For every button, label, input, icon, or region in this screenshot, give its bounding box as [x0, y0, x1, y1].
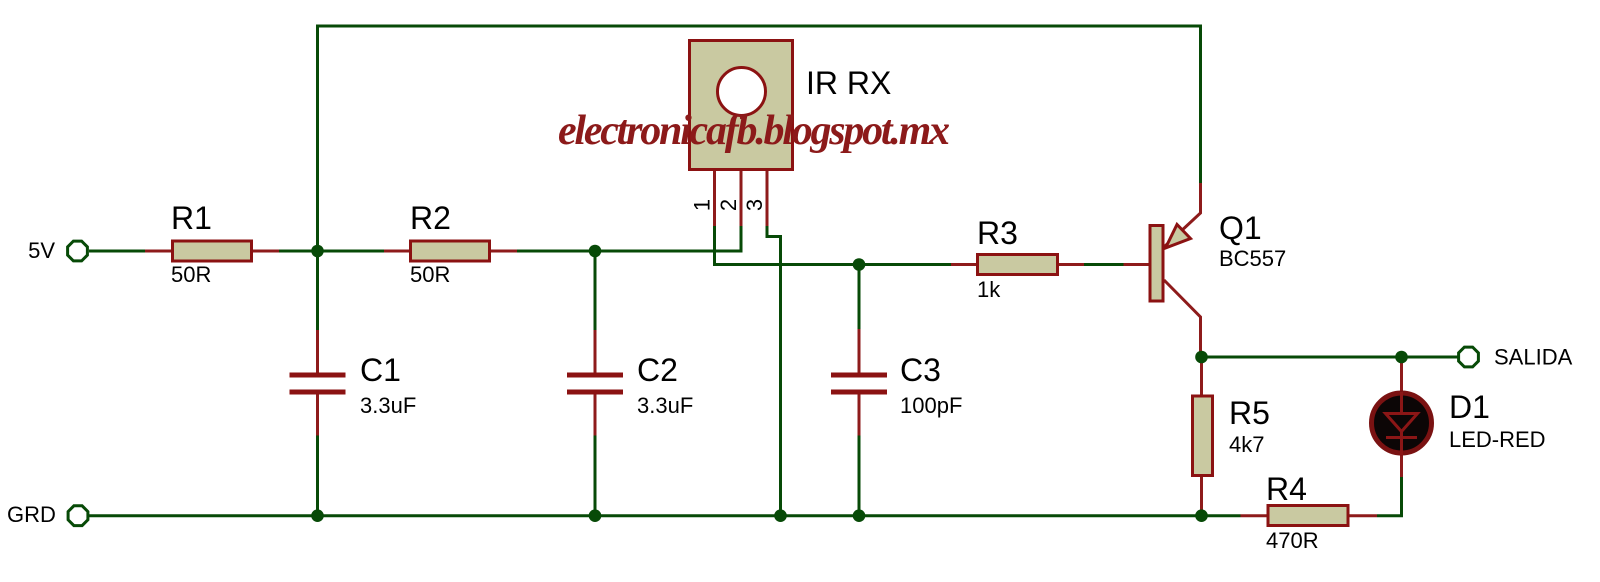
svg-text:R4: R4 — [1266, 471, 1307, 507]
resistor R4 body — [1268, 506, 1348, 526]
svg-text:50R: 50R — [171, 262, 211, 287]
svg-text:2: 2 — [716, 199, 741, 211]
svg-text:C3: C3 — [900, 352, 941, 388]
resistor R3 body — [978, 255, 1058, 275]
wire: VCC top rail from node after R1 up, across top, down to Q1 emitter — [318, 26, 1201, 251]
pin: C1 top red lead — [316, 330, 319, 373]
svg-text:1: 1 — [690, 199, 715, 211]
wire: C1 top lead green — [316, 251, 319, 330]
resistor R2 body — [411, 241, 490, 261]
wire: C3 bottom lead green — [858, 436, 861, 516]
wire: Q1 collector node to SALIDA terminal — [1202, 356, 1458, 359]
junction node C2/ground — [589, 509, 602, 522]
wire: IR RX pin 3 jog down to ground rail — [767, 226, 781, 516]
capacitor C1 plates — [290, 375, 346, 392]
resistor R5 body — [1193, 396, 1213, 476]
pin: Q1 base lead — [1124, 263, 1149, 266]
pin: Q1 emitter lead — [1164, 183, 1201, 247]
capacitor C3 plates — [831, 375, 887, 392]
junction node at R1/R2/C1 — [311, 245, 324, 258]
svg-text:C1: C1 — [360, 352, 401, 388]
junction node R5/ground — [1195, 509, 1208, 522]
svg-text:R5: R5 — [1229, 395, 1270, 431]
junction node at D1 anode — [1395, 351, 1408, 364]
wire: C2 bottom lead green — [594, 436, 597, 516]
svg-text:IR RX: IR RX — [806, 65, 891, 101]
pin: R3 left lead — [951, 263, 977, 266]
wire: R2 to IR RX pin 2 — [517, 226, 741, 251]
svg-text:LED-RED: LED-RED — [1449, 427, 1546, 452]
junction node at R2/C2 — [589, 245, 602, 258]
pin: C1 bottom red lead — [316, 395, 319, 436]
pin: C3 top red lead — [858, 329, 861, 373]
wire: C3 top lead green — [858, 265, 861, 330]
resistor R1 body — [173, 241, 252, 261]
transistor Q1 emitter arrow — [1166, 225, 1191, 249]
pin: C2 top red lead — [594, 330, 597, 373]
pin: C3 bottom red lead — [858, 395, 861, 436]
terminal SALIDA — [1459, 347, 1479, 367]
pin: R4 left lead — [1241, 514, 1269, 517]
svg-text:3: 3 — [742, 199, 767, 211]
transistor Q1 base bar — [1150, 226, 1163, 302]
IR RX sensor body U1 — [690, 41, 793, 170]
svg-text:470R: 470R — [1266, 528, 1319, 553]
svg-text:4k7: 4k7 — [1229, 432, 1264, 457]
wire: GRD bottom rail — [89, 514, 1202, 517]
wire: R4 right to D1 cathode — [1377, 477, 1402, 516]
pin: R3 right lead — [1058, 263, 1084, 266]
svg-text:R1: R1 — [171, 200, 212, 236]
svg-text:5V: 5V — [28, 238, 55, 263]
pin: D1 anode lead — [1400, 357, 1403, 392]
pin: R4 right lead — [1348, 514, 1377, 517]
pin: R1 left lead — [145, 250, 172, 253]
pin: R2 left lead — [384, 250, 410, 253]
svg-text:R2: R2 — [410, 200, 451, 236]
pin 2 of IR RX — [740, 171, 743, 226]
svg-text:D1: D1 — [1449, 389, 1490, 425]
junction node at Q1 collector/R5 — [1195, 351, 1208, 364]
pin: R2 right lead — [490, 250, 517, 253]
LED D1 body — [1372, 393, 1432, 453]
wire: 5V terminal to R1 — [89, 250, 145, 253]
svg-text:3.3uF: 3.3uF — [637, 393, 693, 418]
pin: R5 top lead — [1200, 357, 1203, 396]
pin 1 of IR RX — [713, 171, 716, 226]
pin: R5 bottom lead — [1200, 476, 1203, 516]
capacitor C2 plates — [567, 375, 623, 392]
svg-text:1k: 1k — [977, 277, 1001, 302]
svg-text:100pF: 100pF — [900, 393, 962, 418]
junction node pin3/ground — [774, 509, 787, 522]
svg-text:SALIDA: SALIDA — [1494, 345, 1573, 370]
terminal 5V — [68, 241, 88, 261]
wire: R3 to Q1 base — [1084, 263, 1124, 266]
LED D1 diode symbol — [1386, 392, 1418, 455]
svg-text:R3: R3 — [977, 215, 1018, 251]
pin: R1 right lead — [252, 250, 279, 253]
svg-text:C2: C2 — [637, 352, 678, 388]
junction node C1/ground — [311, 509, 324, 522]
pin: D1 cathode lead — [1400, 454, 1403, 477]
wire: C1 bottom lead green — [316, 436, 319, 516]
svg-text:Q1: Q1 — [1219, 210, 1262, 246]
wire: IR RX pin 1 down and right to C3/R3 node — [715, 226, 952, 265]
svg-text:BC557: BC557 — [1219, 246, 1286, 271]
wire: R1 to R2 rail segment — [279, 250, 384, 253]
junction node C3/ground — [853, 509, 866, 522]
svg-text:GRD: GRD — [7, 502, 56, 527]
terminal GRD — [68, 506, 88, 526]
pin: Q1 collector lead — [1164, 280, 1201, 357]
pin 3 of IR RX — [766, 171, 769, 226]
svg-text:50R: 50R — [410, 262, 450, 287]
junction node at C3/R3 — [853, 258, 866, 271]
wire: C2 top lead green — [594, 251, 597, 330]
pin: C2 bottom red lead — [594, 395, 597, 436]
svg-text:electronicafb.blogspot.mx: electronicafb.blogspot.mx — [558, 108, 950, 154]
svg-text:3.3uF: 3.3uF — [360, 393, 416, 418]
wire: ground rail node to R4 — [1202, 514, 1241, 517]
